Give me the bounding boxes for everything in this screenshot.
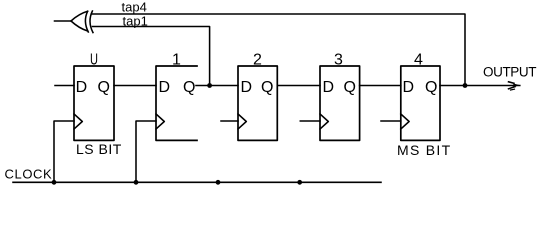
wire: D input stub of FF0 bbox=[55, 85, 74, 87]
svg-text:LS BIT: LS BIT bbox=[76, 141, 122, 157]
svg-text:OUTPUT: OUTPUT bbox=[483, 65, 536, 80]
wire: FF4.Q to OUTPUT bbox=[440, 85, 520, 87]
xor gate U1 (feedback XOR, pointing left) bbox=[71, 11, 93, 33]
svg-text:Q: Q bbox=[98, 79, 110, 96]
wire: tap4 net (XOR top input to output node) bbox=[92, 14, 465, 86]
wire: clock stub FF0 with riser bbox=[54, 121, 74, 182]
wire: FF3.Q to FF4.D bbox=[360, 85, 401, 87]
flip-flop 0 box (LS BIT) bbox=[74, 66, 114, 140]
junction dot: tap1 to FF1.Q bbox=[207, 83, 212, 88]
clock triangle FF1 bbox=[156, 114, 164, 129]
flip-flop 4 box (MS BIT) bbox=[401, 66, 440, 140]
svg-text:4: 4 bbox=[414, 52, 423, 69]
svg-text:2: 2 bbox=[253, 52, 262, 69]
junction dot: clock bus at FF1 riser bbox=[134, 180, 139, 185]
svg-text:Q: Q bbox=[425, 79, 437, 96]
svg-text:Q: Q bbox=[344, 79, 356, 96]
svg-text:D: D bbox=[241, 79, 253, 96]
wire: XOR output stub bbox=[55, 20, 72, 22]
clock triangle FF2 bbox=[238, 114, 246, 129]
wire: FF0.Q to FF1.D bbox=[114, 85, 156, 87]
clock triangle FF0 bbox=[74, 114, 82, 129]
svg-text:1: 1 bbox=[172, 52, 181, 69]
flip-flop 3 box bbox=[320, 66, 360, 140]
junction dot: tap4 to output node bbox=[463, 83, 468, 88]
wire: clock stub FF2 (dangling) bbox=[221, 120, 238, 122]
clock triangle FF4 bbox=[401, 114, 409, 129]
svg-text:MS BIT: MS BIT bbox=[397, 142, 451, 158]
svg-text:3: 3 bbox=[334, 52, 343, 69]
wire: tap1 net (XOR bottom input to FF1.Q node) bbox=[93, 27, 210, 86]
wire: clock stub FF1 with riser bbox=[136, 121, 156, 182]
svg-text:tap4: tap4 bbox=[122, 0, 147, 14]
svg-text:Q: Q bbox=[261, 79, 273, 96]
wire: clock stub FF3 (dangling) bbox=[300, 120, 320, 122]
svg-text:D: D bbox=[323, 79, 335, 96]
arrowhead of OUTPUT wire bbox=[509, 82, 515, 84]
junction dot: clock bus at FF0 riser bbox=[52, 180, 57, 185]
svg-text:Q: Q bbox=[183, 79, 195, 96]
svg-text:CLOCK: CLOCK bbox=[5, 166, 53, 181]
svg-text:tap1: tap1 bbox=[123, 14, 148, 29]
junction dot: clock bus below FF2 bbox=[216, 180, 221, 185]
svg-text:U: U bbox=[90, 52, 98, 69]
svg-text:D: D bbox=[159, 79, 171, 96]
wire: FF1.Q to FF2.D (with tap1 junction) bbox=[196, 85, 238, 87]
wire: clock stub FF4 (dangling) bbox=[381, 120, 401, 122]
junction dot: clock bus below FF3 bbox=[297, 180, 302, 185]
svg-text:D: D bbox=[403, 79, 415, 96]
wire: CLOCK bus bbox=[13, 181, 381, 183]
svg-text:D: D bbox=[76, 79, 88, 96]
wire: FF2.Q to FF3.D bbox=[277, 85, 320, 87]
clock triangle FF3 bbox=[320, 114, 328, 129]
flip-flop 1 box (no right edge in source) bbox=[156, 66, 197, 140]
flip-flop 2 box bbox=[238, 66, 277, 140]
